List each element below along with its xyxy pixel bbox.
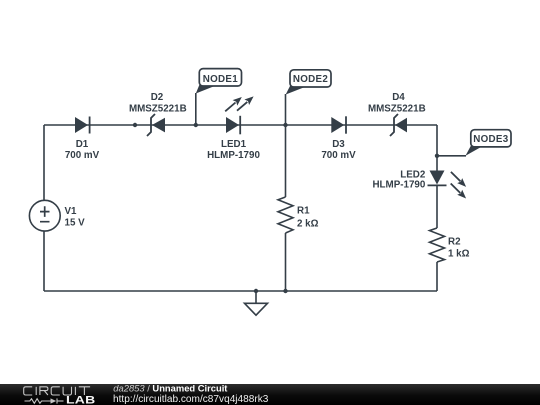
svg-text:NODE3: NODE3: [473, 134, 509, 145]
svg-text:700 mV: 700 mV: [321, 150, 356, 161]
node junction R1 bottom: [283, 289, 287, 293]
diode D1: [65, 117, 100, 162]
svg-text:HLMP-1790: HLMP-1790: [207, 150, 260, 161]
svg-text:1 kΩ: 1 kΩ: [448, 248, 470, 259]
LED LED1: [207, 96, 260, 161]
svg-text:MMSZ5221B: MMSZ5221B: [368, 104, 426, 115]
junction dots: [133, 123, 439, 293]
zener diode D4: [368, 92, 426, 136]
svg-text:D4: D4: [392, 92, 405, 103]
node junction NODE2/R1: [283, 123, 287, 127]
diode D3: [321, 116, 356, 161]
node junction NODE1: [194, 123, 198, 127]
resistor R1: [278, 197, 319, 233]
wire right: [436, 125, 438, 291]
node junction ground: [254, 289, 258, 293]
node NODE2: [286, 70, 332, 125]
svg-text:700 mV: 700 mV: [65, 150, 100, 161]
svg-text:LAB: LAB: [66, 394, 95, 405]
CircuitLab logo lettering: [24, 387, 90, 395]
svg-text:D3: D3: [332, 139, 345, 150]
wire R1 branch: [285, 125, 287, 291]
svg-text:NODE2: NODE2: [293, 74, 329, 85]
svg-text:http://circuitlab.com/c87vq4j4: http://circuitlab.com/c87vq4j488rk3: [113, 394, 269, 405]
svg-text:HLMP-1790: HLMP-1790: [372, 179, 425, 190]
zener diode D2: [129, 92, 187, 136]
svg-text:R2: R2: [448, 236, 461, 247]
svg-text:LED1: LED1: [221, 139, 247, 150]
node junction NODE3: [435, 154, 439, 158]
node junction D1-D2: [133, 123, 137, 127]
wire top: [44, 124, 437, 126]
svg-text:D1: D1: [76, 139, 89, 150]
footer title text: [113, 383, 269, 405]
svg-text:MMSZ5221B: MMSZ5221B: [129, 104, 187, 115]
ground: [245, 291, 268, 315]
svg-text:D2: D2: [151, 92, 164, 103]
svg-text:V1: V1: [65, 206, 78, 217]
svg-text:15 V: 15 V: [65, 218, 86, 229]
node NODE1: [196, 69, 242, 125]
svg-text:da2853 / Unnamed Circuit: da2853 / Unnamed Circuit: [113, 383, 227, 394]
voltage source V1: [29, 200, 85, 231]
node NODE3: [437, 130, 511, 156]
svg-text:2 kΩ: 2 kΩ: [297, 218, 319, 229]
LED LED2: [372, 169, 466, 198]
resistor R2: [430, 228, 470, 262]
svg-text:R1: R1: [297, 205, 310, 216]
logo mini schematic: [25, 398, 64, 403]
wire bottom: [44, 290, 437, 292]
svg-text:NODE1: NODE1: [203, 74, 239, 85]
wire left: [43, 125, 45, 291]
